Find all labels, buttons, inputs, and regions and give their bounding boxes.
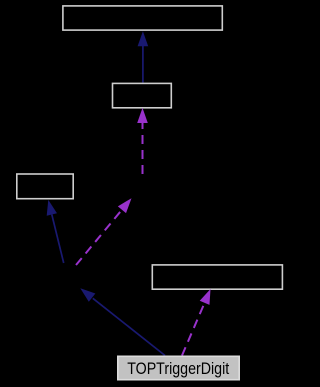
arrowhead at hidden node <box>80 288 95 302</box>
arrowhead at left box <box>47 200 57 216</box>
edge inheritance solid: hidden node to left box, wire <box>52 215 64 264</box>
node box right (fourth row) <box>152 265 282 289</box>
edge usage dashed vertical: hidden node to second box, wire <box>142 123 144 174</box>
svg-text:TOPTriggerDigit: TOPTriggerDigit <box>127 359 229 378</box>
node TOPTriggerDigit (current class, filled) <box>118 356 239 379</box>
node box second row <box>113 83 172 107</box>
edge inheritance solid: TOPTriggerDigit to hidden node, wire <box>93 298 165 355</box>
arrowhead at top box <box>138 31 149 46</box>
node box top (base class, label hidden on black) <box>63 6 222 30</box>
edge usage dashed: TOPTriggerDigit to right box, wire <box>182 303 205 356</box>
node box left (third row) <box>17 174 73 199</box>
arrowhead at right box <box>200 289 211 305</box>
edge inheritance solid: second box to top box, wire <box>142 45 144 83</box>
arrowhead at second box <box>137 108 148 123</box>
arrowhead at hidden mid node <box>118 198 132 213</box>
edge usage dashed diagonal: hidden node to hidden node, wire <box>76 210 122 265</box>
